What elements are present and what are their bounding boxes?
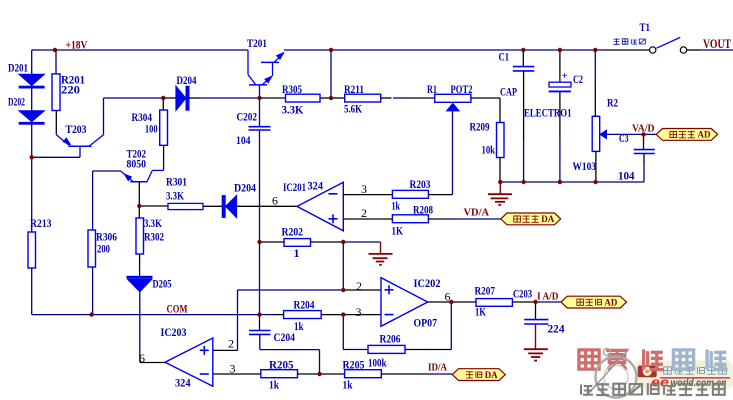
- svg-text:R301: R301: [166, 175, 187, 189]
- svg-text:R213: R213: [30, 216, 52, 230]
- svg-text:D202: D202: [8, 95, 25, 109]
- svg-text:+18V: +18V: [66, 38, 88, 52]
- svg-text:R302: R302: [144, 230, 164, 244]
- svg-text:D204: D204: [234, 181, 256, 195]
- svg-text:R205: R205: [269, 358, 294, 372]
- svg-text:C202: C202: [237, 110, 258, 124]
- svg-text:R202: R202: [282, 225, 304, 239]
- svg-text:3.3K: 3.3K: [282, 103, 305, 117]
- svg-text:2: 2: [228, 337, 234, 351]
- svg-text:100k: 100k: [368, 356, 387, 370]
- svg-text:R305: R305: [282, 82, 302, 96]
- svg-text:220: 220: [61, 83, 80, 97]
- svg-text:224: 224: [548, 322, 565, 336]
- svg-text:1: 1: [294, 246, 300, 260]
- svg-text:T201: T201: [247, 36, 267, 50]
- svg-text:R211: R211: [344, 82, 364, 96]
- svg-text:R203: R203: [410, 177, 431, 191]
- svg-text:R205: R205: [343, 358, 365, 372]
- svg-text:6: 6: [272, 194, 278, 208]
- svg-text:2: 2: [356, 279, 362, 293]
- svg-text:C1: C1: [499, 50, 510, 64]
- svg-text:CAP: CAP: [500, 85, 517, 99]
- svg-text:324: 324: [308, 179, 324, 193]
- svg-text:T1: T1: [640, 20, 651, 34]
- svg-text:3.3K: 3.3K: [166, 189, 184, 203]
- svg-text:W103: W103: [573, 159, 597, 173]
- svg-text:10k: 10k: [482, 143, 496, 157]
- svg-text:104: 104: [236, 133, 251, 147]
- svg-text:D204: D204: [177, 73, 197, 87]
- svg-text:324: 324: [175, 376, 191, 390]
- svg-text:1k: 1k: [269, 378, 279, 392]
- svg-text:DA: DA: [541, 214, 554, 225]
- svg-text:3: 3: [361, 182, 367, 196]
- svg-text:VA/D: VA/D: [632, 123, 655, 135]
- svg-text:3: 3: [230, 362, 236, 376]
- svg-text:VOUT: VOUT: [703, 37, 732, 51]
- svg-text:R1: R1: [427, 82, 437, 96]
- svg-text:1K: 1K: [475, 305, 486, 319]
- svg-text:AD: AD: [604, 297, 617, 308]
- svg-text:1k: 1k: [343, 378, 353, 392]
- svg-text:IC203: IC203: [161, 325, 187, 339]
- svg-text:6: 6: [445, 290, 451, 304]
- svg-text:R206: R206: [380, 332, 401, 346]
- svg-text:C204: C204: [274, 330, 296, 344]
- svg-text:POT2: POT2: [451, 82, 473, 96]
- svg-text:R207: R207: [475, 284, 496, 298]
- svg-text:1k: 1k: [294, 319, 304, 333]
- svg-text:IC201: IC201: [283, 180, 306, 194]
- svg-text:200: 200: [97, 242, 110, 256]
- svg-text:5.6K: 5.6K: [344, 102, 362, 116]
- svg-text:+: +: [562, 70, 568, 82]
- svg-text:1K: 1K: [392, 224, 404, 238]
- svg-text:C203: C203: [513, 287, 532, 301]
- svg-text:6: 6: [139, 351, 145, 365]
- svg-text:1k: 1k: [392, 199, 401, 213]
- svg-text:8050: 8050: [127, 157, 147, 171]
- svg-text:COM: COM: [167, 302, 188, 316]
- svg-text:R208: R208: [413, 203, 433, 217]
- svg-text:IC202: IC202: [414, 276, 441, 290]
- svg-text:AD: AD: [698, 130, 711, 141]
- svg-text:ELECTRO1: ELECTRO1: [524, 106, 572, 120]
- svg-text:C2: C2: [573, 72, 583, 86]
- svg-text:D205: D205: [153, 277, 172, 291]
- svg-text:104: 104: [618, 169, 635, 183]
- svg-text:R2: R2: [607, 96, 618, 110]
- svg-text:3.3K: 3.3K: [144, 216, 162, 230]
- svg-text:100: 100: [145, 122, 158, 136]
- svg-text:3: 3: [356, 305, 362, 319]
- svg-text:R209: R209: [470, 120, 490, 134]
- svg-text:R204: R204: [294, 298, 315, 312]
- svg-text:C3: C3: [619, 131, 629, 145]
- svg-text:OP07: OP07: [414, 316, 438, 330]
- svg-text:2: 2: [361, 206, 367, 220]
- svg-text:D201: D201: [8, 61, 28, 75]
- svg-text:ee: ee: [651, 375, 669, 390]
- svg-text:T203: T203: [66, 122, 87, 136]
- svg-text:DA: DA: [485, 370, 498, 381]
- svg-text:VD/A: VD/A: [464, 207, 490, 219]
- svg-text:ID/A: ID/A: [428, 362, 447, 374]
- svg-text:I A/D: I A/D: [537, 291, 559, 303]
